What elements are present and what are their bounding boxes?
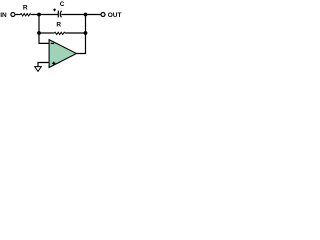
svg-text:IN: IN <box>0 12 7 19</box>
svg-text:C: C <box>60 1 65 8</box>
svg-text:OUT: OUT <box>108 12 122 19</box>
svg-text:R: R <box>23 5 28 12</box>
svg-text:R: R <box>56 22 61 29</box>
